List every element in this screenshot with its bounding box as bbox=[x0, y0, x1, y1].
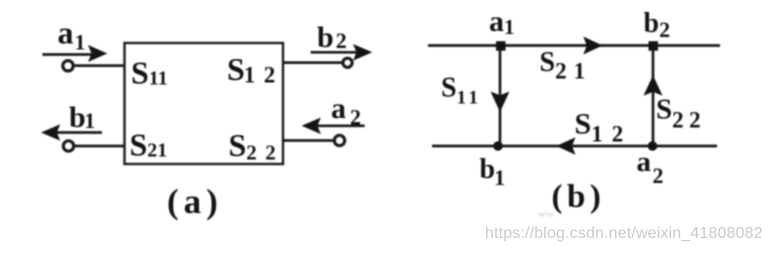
wire bottom branch b bbox=[432, 145, 717, 148]
svg-text:S11: S11 bbox=[131, 55, 168, 91]
node a1 bbox=[496, 41, 506, 51]
arrowhead a1 bbox=[88, 45, 107, 62]
arrow shaft a1 bbox=[42, 53, 92, 56]
arrowhead b1 bbox=[41, 124, 60, 141]
svg-text:a1: a1 bbox=[489, 5, 515, 39]
svg-text:(a): (a) bbox=[167, 182, 223, 221]
terminal circle port1 output bbox=[63, 141, 73, 151]
node b1 bbox=[493, 141, 503, 151]
arrowhead S11 down bbox=[491, 92, 510, 113]
arrowhead S12 bbox=[556, 137, 575, 155]
two-port network box bbox=[125, 43, 284, 164]
wire S22 branch bbox=[652, 46, 655, 147]
terminal circle port2 input bbox=[334, 135, 344, 145]
wire top branch b bbox=[428, 44, 720, 47]
svg-text:b1: b1 bbox=[69, 101, 95, 134]
watermark bbox=[485, 225, 771, 243]
artifact smudge bbox=[538, 212, 568, 223]
svg-text:S21: S21 bbox=[130, 127, 168, 163]
wire port1 output bbox=[73, 145, 125, 148]
arrow shaft a2 bbox=[316, 124, 365, 127]
wire port2 input bbox=[283, 139, 335, 142]
svg-text:b1: b1 bbox=[480, 154, 506, 190]
svg-text:a2: a2 bbox=[637, 146, 664, 188]
wire port1 input bbox=[72, 64, 125, 67]
node b2 bbox=[649, 41, 659, 51]
svg-text:b2: b2 bbox=[317, 21, 347, 54]
svg-text:S22: S22 bbox=[656, 93, 706, 132]
terminal circle port1 input bbox=[63, 61, 73, 71]
wire port2 output bbox=[283, 61, 343, 64]
svg-text:S12: S12 bbox=[227, 51, 284, 88]
arrow shaft b1 bbox=[55, 131, 102, 134]
wire S11 branch bbox=[499, 46, 502, 147]
terminal circle port2 output bbox=[343, 58, 352, 67]
arrowhead b2 bbox=[353, 44, 372, 61]
svg-text:S11: S11 bbox=[441, 73, 482, 109]
svg-text:S12: S12 bbox=[575, 108, 633, 147]
svg-text:(b): (b) bbox=[552, 179, 606, 215]
svg-text:S22: S22 bbox=[229, 127, 285, 165]
arrow shaft b2 bbox=[311, 51, 358, 54]
svg-text:a2: a2 bbox=[331, 92, 361, 130]
svg-text:a1: a1 bbox=[58, 15, 86, 55]
node a2 bbox=[648, 141, 658, 151]
svg-text:b2: b2 bbox=[644, 8, 671, 42]
arrowhead S21 bbox=[583, 37, 602, 55]
arrowhead a2 bbox=[302, 118, 321, 135]
arrowhead S22 up bbox=[644, 75, 663, 95]
